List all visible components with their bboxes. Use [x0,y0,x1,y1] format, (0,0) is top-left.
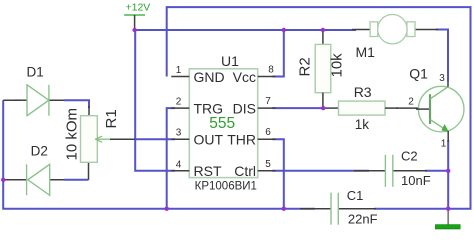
svg-text:DIS: DIS [233,101,256,117]
svg-text:R2: R2 [297,57,314,76]
svg-text:Q1: Q1 [409,65,428,81]
ground [435,209,460,229]
svg-text:GND: GND [194,69,225,85]
junction THR bottom [282,207,286,211]
svg-text:10k: 10k [329,53,346,78]
svg-text:1: 1 [176,65,182,76]
wire motor right down to collector [436,30,448,83]
wire D1 left lead [14,99,27,101]
svg-text:+12V: +12V [126,2,151,14]
junction R2 top tap [321,28,325,32]
svg-text:555: 555 [209,115,235,132]
wire D1 right to R1 top [49,99,66,101]
wire THR pin6 down to bottom net [272,139,284,209]
junction ground node [446,207,450,211]
wire C2 right to emitter junction [425,170,448,172]
diode D1 [27,65,49,116]
svg-text:1: 1 [441,139,447,150]
junction DIS R2 R3 node [321,106,325,110]
svg-text:10nF: 10nF [401,173,431,188]
svg-text:5: 5 [265,159,271,170]
svg-text:КР1006ВИ1: КР1006ВИ1 [195,181,257,193]
svg-text:8: 8 [268,65,274,76]
junction Vcc tap [282,28,286,32]
svg-text:10 kOm: 10 kOm [64,108,81,161]
wire bottom net [3,100,315,209]
op-amp U1 555 timer box [189,53,257,193]
wire GND net top: pin1 up, across top, down right side [167,7,471,209]
junction emitter C2 [446,169,450,173]
potentiometer R1 [64,108,121,162]
pin 4 RST stub [171,159,189,171]
svg-text:1k: 1k [355,117,370,132]
wire C1 right to ground junction [374,208,448,210]
junction TRG bottom [165,207,169,211]
pin 6 THR stub [258,127,276,139]
junction D2 tap on left net [1,178,5,182]
wire DIS pin7 to R2 bottom junction [272,107,323,109]
svg-text:D2: D2 [31,143,48,158]
pin 1 GND stub [171,65,189,77]
power symbol +12V [124,2,150,31]
wire R3 to Q1 base [396,107,418,109]
junction +12V tap [132,28,136,32]
wire D2 left lead [3,179,26,181]
svg-text:R3: R3 [354,84,372,100]
wire R1 wiper to OUT pin3 [110,138,135,140]
svg-text:THR: THR [227,132,256,148]
pin 7 DIS stub [258,96,276,108]
svg-text:3: 3 [439,73,445,84]
svg-text:Vcc: Vcc [233,69,256,85]
svg-text:D1: D1 [27,65,44,80]
wire emitter down to C2 junction and ground junction [447,140,449,209]
svg-text:7: 7 [265,96,271,107]
pin 3 OUT stub [171,128,189,140]
svg-text:Ctrl: Ctrl [234,163,256,179]
svg-text:R1: R1 [103,109,120,128]
pin 5 Ctrl stub [258,159,276,171]
svg-text:C1: C1 [347,188,364,203]
capacitor C1 [300,188,378,226]
diode D2 [27,143,50,195]
wire Ctrl pin5 to C2 [272,170,369,172]
svg-text:M1: M1 [356,44,376,60]
svg-text:3: 3 [176,128,182,139]
wire left vertical to D1 [3,99,20,101]
wire +12V rail [135,29,356,31]
wire D2 right to R1 bottom [50,179,66,181]
wire RST to +12V [135,30,175,171]
svg-text:C2: C2 [401,149,418,164]
transistor Q1 [408,65,464,149]
svg-text:OUT: OUT [194,132,224,148]
capacitor C2 [354,149,431,188]
wire TRG pin2 down to bottom net [167,108,175,209]
pin 8 Vcc stub [258,65,276,77]
resistor R2 [297,30,346,108]
pin 2 TRG stub [171,97,189,109]
svg-text:22nF: 22nF [348,211,378,226]
svg-text:U1: U1 [221,53,239,69]
resistor R3 [323,84,398,132]
wire Vcc pin8 up to rail [272,30,284,77]
svg-text:2: 2 [408,97,414,108]
motor M1 [352,15,438,61]
svg-text:RST: RST [194,163,222,179]
svg-text:2: 2 [176,97,182,108]
svg-text:6: 6 [265,127,271,138]
svg-text:4: 4 [176,159,182,170]
